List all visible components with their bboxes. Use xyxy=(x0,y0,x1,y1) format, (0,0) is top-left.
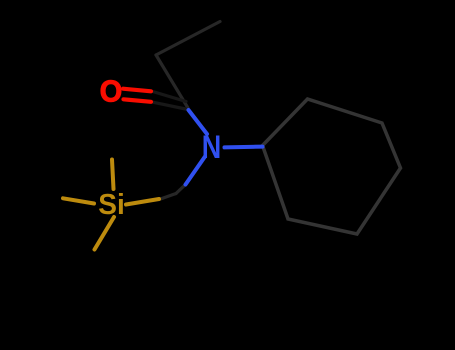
svg-text:O: O xyxy=(100,74,123,109)
svg-text:N: N xyxy=(202,129,222,165)
svg-text:Si: Si xyxy=(98,189,125,221)
